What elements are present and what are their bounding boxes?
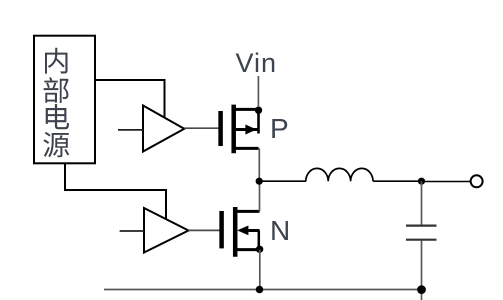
wire U1 output to Q1 gate (184, 127, 219, 129)
wire box to bottom driver supply (65, 163, 166, 219)
wire Q1 source to phase node (258, 148, 260, 181)
junction dot Q1 body to Vin (255, 107, 262, 114)
char 源 (43, 132, 69, 157)
node phase junction dot (256, 178, 263, 185)
wire U2 input stub (120, 230, 144, 232)
output terminal circle (471, 175, 483, 187)
wire U1 input stub (118, 129, 143, 131)
Q1 body arrow (points right) (245, 125, 256, 135)
wire Q2 source to ground rail (259, 250, 261, 290)
Q2 body arrow (points left) (237, 226, 248, 236)
wire Q2 drain to phase node (259, 181, 261, 211)
node Q2 source on rail (256, 286, 264, 294)
svg-text:N: N (270, 215, 290, 246)
svg-text:P: P (270, 113, 289, 144)
ground rail wire (104, 289, 422, 291)
wire inductor to output node (373, 180, 421, 182)
wire output node to capacitor (421, 181, 423, 225)
svg-text:Vin: Vin (236, 48, 278, 78)
transistor Q2 NMOS (222, 207, 260, 257)
wire capacitor to ground rail (421, 241, 423, 300)
char 电 (46, 104, 69, 129)
inductor L1 (306, 168, 373, 181)
wire output node to terminal (422, 181, 471, 183)
char 部 (44, 77, 69, 103)
node capacitor on rail (417, 285, 426, 294)
wire U2 output to Q2 gate (189, 229, 221, 231)
wire phase to inductor (259, 180, 306, 182)
transistor Q1 PMOS (221, 105, 259, 154)
driver U1 (top buffer) (143, 106, 184, 152)
capacitor C1 (406, 226, 437, 240)
label 内部电源 (as paths) (43, 48, 69, 158)
char 内 (45, 48, 68, 74)
node output junction dot (418, 178, 425, 185)
wire Vin to Q1 drain (257, 76, 259, 107)
junction dot Q2 body to source (256, 246, 263, 253)
internal supply box U3 (34, 36, 95, 164)
driver U2 (bottom buffer) (144, 208, 189, 253)
wire box to top driver supply (95, 80, 165, 117)
